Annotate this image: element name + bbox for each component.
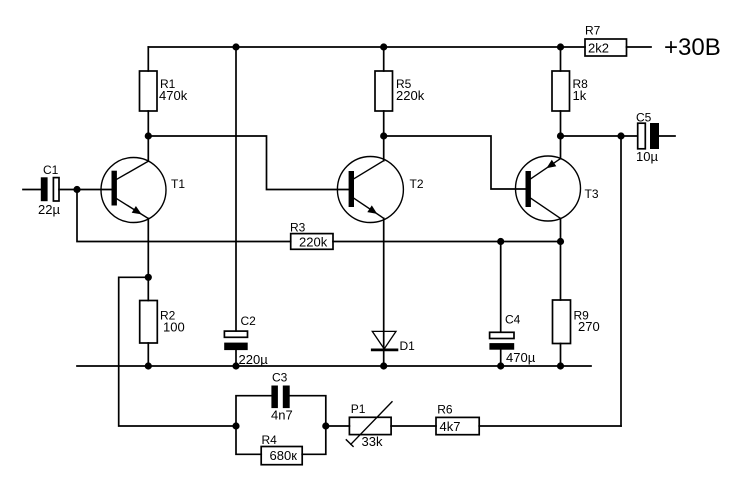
svg-text:P1: P1 [351,402,366,416]
node T1 base junction [73,186,80,193]
svg-text:C3: C3 [272,371,288,385]
wire C2 top lead [235,47,237,331]
wire C1 to T1 base node [59,189,77,191]
capacitor C2 [224,331,248,350]
capacitor C1 [41,177,59,201]
wire R5 bottom lead [383,111,385,136]
wire T1 collector up [147,136,149,161]
svg-text:R4: R4 [262,433,278,447]
transistor T1 [101,158,166,223]
wire R5 top riser [383,47,385,71]
svg-text:C1: C1 [43,163,59,177]
svg-text:1k: 1k [573,88,587,103]
wire output node down to R6 [620,136,622,426]
wire output node to C5 [621,135,638,137]
wire D1 to ground [383,350,385,366]
resistor R8 [552,71,570,111]
wire R3 to T3 emitter node [333,241,561,243]
svg-text:T2: T2 [410,177,424,191]
junction C2 / ground rail [232,362,239,369]
svg-text:4n7: 4n7 [271,408,293,423]
svg-text:C4: C4 [505,313,521,327]
wire ground rail [77,365,591,367]
resistor R7 [585,39,627,56]
wire R2 bottom lead [147,343,149,366]
svg-text:R3: R3 [290,221,306,235]
svg-text:470k: 470k [159,88,188,103]
svg-text:T3: T3 [585,187,599,201]
junction T1 emitter / R2 [145,274,152,281]
junction D1 / ground rail [380,362,387,369]
wire T2 collector up [383,136,385,161]
diode D1 [372,331,397,350]
resistor R5 [375,71,393,111]
svg-text:100: 100 [163,320,185,335]
svg-text:T1: T1 [171,177,185,191]
resistor R4 [261,447,302,465]
transistor T3 [516,156,581,221]
wire C3 branch [236,396,271,426]
node bottom-right of C3/R4 [322,422,329,429]
junction top rail / C2 [232,43,239,50]
svg-text:22µ: 22µ [38,202,60,217]
svg-text:270: 270 [578,319,600,334]
capacitor C5 [638,123,659,149]
capacitor C4 [489,332,514,349]
junction top rail / R8 [557,43,564,50]
wire C2 bottom lead [235,350,237,366]
svg-text:+30B: +30B [664,34,721,61]
wire R1 top riser [147,47,149,71]
resistor R9 [553,300,571,344]
svg-text:10µ: 10µ [636,149,658,164]
wire T3 emitter up [560,136,562,159]
svg-text:4k7: 4k7 [440,419,461,434]
wire R9 top lead [560,242,562,301]
wire C4 bottom lead [500,350,502,366]
svg-text:R6: R6 [437,403,453,417]
wire R9 bottom lead [560,344,562,367]
svg-text:680к: 680к [270,448,298,463]
junction R3 line / T3-R9 [557,238,564,245]
wire top supply rail [148,46,585,48]
wire T3 collector down [560,218,562,241]
wire T2 collector to T3 base [384,136,526,189]
wire T2 emitter down to D1 [383,218,385,349]
wire C4 top lead [500,242,502,333]
wire R6 to output vertical [479,425,621,427]
junction R8 / T3 emitter [557,132,564,139]
wire R4 branch [236,426,261,454]
svg-text:220k: 220k [396,88,425,103]
junction R5 / T2 collector [380,132,387,139]
capacitor C3 [271,386,289,409]
junction R3 line / C4 [497,238,504,245]
wire R1 bottom lead [147,111,149,136]
junction R2 / ground rail [145,362,152,369]
svg-text:470µ: 470µ [506,350,536,365]
wire T1 base node down [77,190,291,242]
resistor R3 [291,234,333,250]
wire T1 collector to T2 base [148,136,348,190]
wire C3 to right node [290,396,326,426]
svg-text:C5: C5 [636,111,652,125]
junction C4 / ground rail [497,362,504,369]
resistor R2 [140,301,158,344]
resistor R1 [140,71,158,111]
wire T1 emitter to bottom network [119,277,236,426]
wire right node to P1 [326,425,350,427]
wire base node to T1 [77,189,112,191]
svg-text:220k: 220k [299,235,328,250]
wire P1 to R6 [391,425,436,427]
svg-text:C2: C2 [241,314,257,328]
wire R7 to +30B [627,46,652,48]
wire R4 to right node [302,426,326,454]
wire C5 output stub [659,135,675,137]
svg-text:220µ: 220µ [239,352,269,367]
wire T1 emitter down [147,219,149,278]
junction output node [617,132,624,139]
wire R2 top lead [147,277,149,300]
resistor R6 [436,417,479,434]
potentiometer P1 [346,402,392,447]
svg-text:D1: D1 [400,339,416,353]
wire R8 bottom lead [560,111,562,136]
svg-text:R7: R7 [585,24,601,38]
wire R8 node to output node [561,135,622,137]
junction R9 / ground rail [557,362,564,369]
svg-text:2k2: 2k2 [588,41,609,56]
transistor T2 [337,157,403,223]
svg-text:33k: 33k [362,434,383,449]
node bottom-left of C3/R4 [232,422,239,429]
wire R8 top riser [560,47,562,71]
junction R1 / T1 collector [145,132,152,139]
junction top rail / R5 [380,43,387,50]
wire input stub [23,189,41,191]
